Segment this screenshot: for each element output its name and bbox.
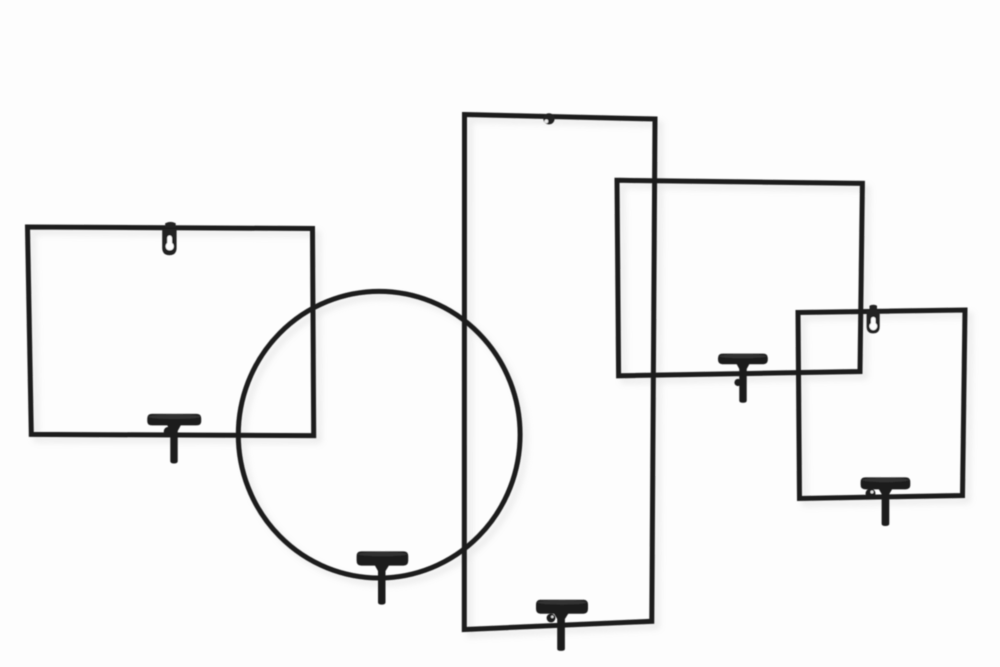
tall middle rectangle (464, 115, 655, 630)
candle cup (upper right rectangle) (718, 354, 768, 403)
candle cup (far right rectangle) (861, 477, 911, 526)
keyhole hanger tab (far right rectangle) (867, 305, 880, 334)
soft photo shadow duplicate (33, 120, 971, 635)
circle ring (238, 291, 520, 578)
wire frame: left rectangle (28, 227, 314, 436)
keyhole hanger tab (left rectangle) (162, 222, 176, 255)
candle cup (tall rectangle) (536, 600, 588, 651)
hanger knob (tall rectangle) (543, 113, 554, 124)
upper right rectangle (617, 180, 862, 375)
candle cup (circle) (357, 551, 409, 604)
far right rectangle (798, 310, 965, 499)
candle cup (left rectangle) (147, 414, 201, 464)
